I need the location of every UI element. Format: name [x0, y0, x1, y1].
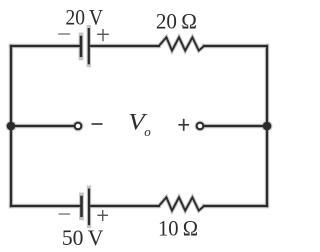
battery V2 minus sign	[59, 213, 71, 215]
resistor R2 10ohm zigzag	[159, 197, 204, 210]
soft halo underlay imitating upscale blur	[11, 27, 267, 226]
terminal left open circle	[75, 123, 82, 130]
battery V1 minus sign	[58, 33, 70, 35]
svg-text:10 Ω: 10 Ω	[158, 216, 198, 241]
battery V1 tall positive plate	[88, 28, 90, 64]
svg-text:o: o	[144, 124, 151, 139]
battery V2 50V plates	[82, 189, 90, 226]
wire resistor to bottom-right	[204, 205, 267, 207]
battery V2 short negative plate	[80, 196, 83, 217]
wire resistor to top-right	[204, 45, 267, 47]
wire middle-right	[204, 125, 267, 127]
wire middle-left	[11, 125, 74, 127]
node B right	[263, 122, 272, 131]
terminal right open circle	[197, 123, 204, 130]
Vo plus sign	[178, 119, 189, 131]
wire battery to resistor top	[90, 45, 159, 47]
battery V1 20V plates	[81, 28, 89, 64]
Vo minus sign	[92, 123, 103, 125]
resistor R1 20ohm zigzag	[159, 37, 204, 50]
battery V2 plus sign	[97, 210, 108, 221]
battery V2 tall positive plate	[88, 189, 90, 226]
svg-text:20 Ω: 20 Ω	[156, 8, 197, 33]
battery V1 short negative plate	[80, 36, 83, 57]
svg-text:20 V: 20 V	[65, 5, 103, 30]
wire top-left to battery	[11, 45, 80, 47]
svg-text:50 V: 50 V	[62, 225, 104, 250]
node A left	[7, 122, 16, 131]
wire battery to resistor bottom	[90, 205, 159, 207]
wire bottom-left to battery	[11, 205, 81, 207]
battery V1 plus sign	[97, 29, 109, 41]
wire right vertical	[266, 46, 268, 206]
wire left vertical	[10, 46, 12, 206]
